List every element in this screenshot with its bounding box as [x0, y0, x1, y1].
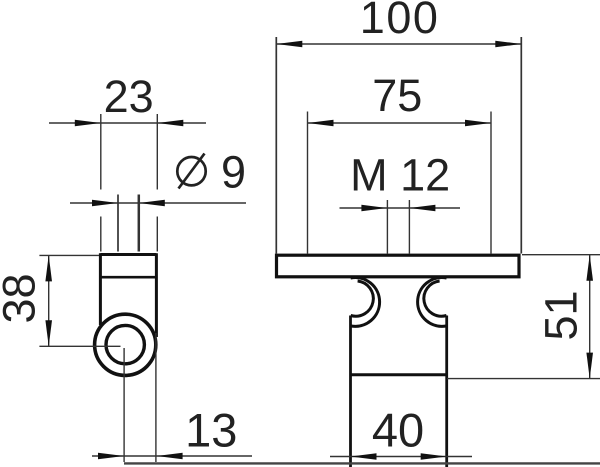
- left fillet crescent inner arc: [351, 281, 374, 316]
- dimension 13 left arrow: [98, 453, 124, 460]
- dimension 75 right arrow: [465, 120, 491, 127]
- svg-text:M 12: M 12: [350, 150, 450, 201]
- hole projection line right: [138, 195, 141, 252]
- left view body rectangle left edge: [99, 253, 102, 325]
- dimension 51 top reference line: [522, 254, 600, 256]
- dimension 51 bottom arrow: [586, 353, 593, 379]
- svg-text:23: 23: [104, 71, 154, 122]
- dimension 40 left arrow: [351, 453, 377, 460]
- dimension 100 line: [276, 43, 521, 45]
- dimension 38 line: [48, 255, 50, 346]
- dimension O9 right arrow: [139, 200, 165, 207]
- svg-text:13: 13: [185, 404, 237, 457]
- right fillet crescent outer arc: [418, 278, 447, 327]
- dimension 40 right arrow: [421, 453, 447, 460]
- eye center leader vertical line: [123, 348, 125, 462]
- dimension M12 line: [340, 207, 461, 209]
- dimension 23 left arrow: [75, 120, 101, 127]
- dimension 23 line: [49, 122, 206, 124]
- hole projection line left: [117, 195, 119, 252]
- dimension 75 line: [308, 122, 492, 124]
- dimension 38 bottom arrow: [45, 320, 52, 346]
- shaft left edge: [349, 316, 352, 467]
- left view eye inner circle (hole): [106, 325, 144, 363]
- left view eye outer circle: [95, 314, 156, 375]
- svg-text:100: 100: [360, 0, 440, 43]
- dimension 75 left arrow: [308, 120, 334, 127]
- dimension O9 line: [70, 202, 246, 204]
- svg-text:51: 51: [536, 290, 587, 340]
- dimension O9 left arrow: [92, 200, 118, 207]
- dimension 100 right arrow: [495, 41, 521, 48]
- dimension 75 right extension line: [490, 112, 492, 254]
- dimension 100 left arrow: [276, 41, 302, 48]
- svg-text:75: 75: [372, 70, 422, 121]
- dimension M12 right arrow: [409, 205, 435, 212]
- dimension 40 line: [330, 456, 472, 458]
- diameter symbol of dimension O9: [177, 157, 205, 185]
- dimension 13 line: [92, 455, 252, 457]
- dimension 13 right extension line: [155, 333, 157, 462]
- left view body rectangle right edge: [155, 253, 158, 337]
- dimension 51 line: [589, 255, 591, 379]
- dimension 13 right arrow: [157, 453, 183, 460]
- left view body rectangle top edge: [100, 253, 156, 256]
- dimension M12 left arrow: [361, 205, 387, 212]
- dimension 23 left extension line: [100, 114, 102, 252]
- thread projection line left: [386, 200, 388, 254]
- dimension 38 bottom reference line: [39, 345, 120, 347]
- dimension 100 left extension line: [275, 37, 277, 254]
- dimension 100 right extension line: [520, 37, 522, 254]
- thread end line: [351, 373, 447, 376]
- left view collar underside line: [100, 276, 156, 279]
- dimension 23 right extension line: [156, 114, 158, 252]
- svg-text:40: 40: [372, 404, 424, 457]
- left fillet crescent outer arc: [351, 278, 380, 327]
- svg-text:9: 9: [221, 147, 246, 198]
- dimension 38 top arrow: [45, 255, 52, 281]
- dimension 75 left extension line: [307, 112, 309, 254]
- right fillet crescent inner arc: [424, 281, 447, 316]
- dimension 38 top reference line: [39, 254, 99, 256]
- dimension 51 bottom reference line: [447, 378, 600, 380]
- svg-text:38: 38: [0, 273, 45, 323]
- dimension 23 right arrow: [157, 120, 183, 127]
- shaft right edge: [445, 316, 448, 467]
- bottom border line: [124, 462, 600, 464]
- flange rectangle: [277, 255, 520, 277]
- dimension 51 top arrow: [586, 255, 593, 281]
- thread projection line right: [408, 200, 410, 254]
